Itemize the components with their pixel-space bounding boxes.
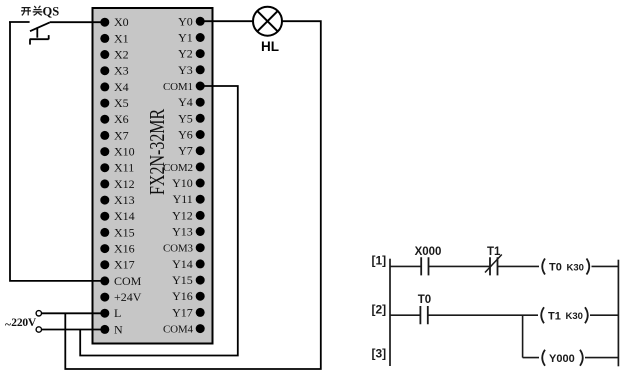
rung 2 wire left (390, 314, 420, 316)
svg-text:Y17: Y17 (172, 305, 193, 319)
pin Y15 (172, 273, 205, 287)
pin Y5 (178, 111, 205, 125)
svg-text:X14: X14 (114, 209, 135, 223)
wire L terminal to L pin (42, 312, 101, 314)
pin X2 (100, 48, 128, 62)
svg-text:N: N (114, 322, 123, 336)
svg-text:Y14: Y14 (172, 257, 193, 271)
rung 1 wire left (390, 265, 421, 267)
rung 1 wire middle (429, 265, 491, 267)
wire Y0 to lamp (204, 20, 253, 22)
pin Y4 (178, 95, 205, 109)
lamp HL (253, 7, 282, 36)
rung 2 wire to coil (428, 314, 538, 316)
svg-text:T1: T1 (487, 246, 501, 258)
pin Y12 (172, 208, 205, 222)
pin N (100, 322, 123, 336)
pin Y16 (172, 289, 205, 303)
svg-text:COM: COM (114, 274, 142, 288)
pin Y17 (172, 305, 205, 319)
svg-text:Y0: Y0 (178, 14, 193, 28)
svg-text:Y6: Y6 (178, 128, 193, 142)
svg-text:X2: X2 (114, 48, 129, 62)
pin X7 (100, 128, 128, 142)
pin COM4 (163, 324, 205, 336)
pin COM3 (163, 243, 205, 255)
pin X17 (100, 258, 134, 272)
pin Y14 (172, 257, 205, 271)
svg-text:X11: X11 (114, 161, 134, 175)
svg-text:T0: T0 (418, 294, 431, 306)
wire lamp to right drop (65, 21, 320, 369)
svg-text:K30: K30 (566, 311, 583, 322)
pin L (100, 306, 121, 320)
terminal N (36, 327, 41, 332)
coil T0 K30 (542, 259, 589, 275)
contact T0 (420, 306, 427, 324)
pin Y13 (172, 225, 205, 239)
pin X3 (100, 64, 128, 78)
svg-text:COM4: COM4 (163, 324, 193, 336)
pin X16 (100, 242, 134, 256)
svg-text:Y000: Y000 (549, 353, 575, 365)
svg-text:X15: X15 (114, 225, 135, 239)
ladder right rail (617, 260, 619, 367)
svg-text:HL: HL (261, 39, 279, 54)
pin COM (100, 274, 141, 288)
rung 3 wire left (523, 357, 539, 359)
svg-text:T1: T1 (548, 311, 561, 323)
pin Y1 (178, 31, 205, 45)
wire left vertical to COM (10, 22, 101, 281)
svg-text:K30: K30 (567, 262, 584, 273)
pin X14 (100, 209, 134, 223)
pin X15 (100, 225, 134, 239)
svg-text:Y11: Y11 (173, 192, 193, 206)
svg-text:Y3: Y3 (178, 63, 193, 77)
switch QS symbol (9, 22, 50, 45)
branch wire rung2 to rung3 (522, 315, 524, 357)
contact T1 normally closed (485, 255, 502, 276)
svg-text:X6: X6 (114, 112, 129, 126)
rung 2 wire to right rail (590, 314, 618, 316)
terminal L (36, 311, 41, 316)
svg-text:[3]: [3] (371, 347, 386, 361)
svg-text:[2]: [2] (371, 302, 386, 316)
svg-text:X3: X3 (114, 64, 129, 78)
svg-text:Y12: Y12 (172, 208, 193, 222)
label T0 K30 (549, 262, 584, 274)
svg-text:~220V: ~220V (5, 317, 37, 331)
pin X5 (100, 96, 128, 110)
wire COM1 loop (80, 86, 238, 356)
svg-text:X5: X5 (114, 96, 129, 110)
coil T1 K30 (541, 307, 588, 323)
pin X4 (100, 80, 128, 94)
svg-text:X0: X0 (114, 15, 129, 29)
pin X1 (100, 31, 128, 45)
switch QS label 开关QS (21, 6, 42, 16)
wire switch to X0 (50, 21, 101, 23)
svg-text:FX2N-32MR: FX2N-32MR (146, 109, 170, 195)
coil Y000 (542, 350, 583, 366)
svg-text:QS: QS (43, 4, 60, 18)
rung 1 wire to right rail (592, 265, 619, 267)
svg-text:X7: X7 (114, 128, 129, 142)
svg-text:[1]: [1] (371, 254, 386, 268)
svg-text:Y7: Y7 (178, 144, 193, 158)
pin X0 (100, 15, 128, 29)
label T1 K30 (548, 311, 583, 323)
pin +24V (100, 290, 141, 304)
svg-text:COM3: COM3 (163, 243, 193, 255)
svg-text:X12: X12 (114, 177, 135, 191)
ladder left rail (389, 259, 391, 366)
pin Y11 (173, 192, 205, 206)
svg-text:Y4: Y4 (178, 95, 193, 109)
svg-text:X16: X16 (114, 242, 135, 256)
svg-text:Y16: Y16 (172, 289, 193, 303)
pin Y7 (178, 144, 205, 158)
svg-text:COM1: COM1 (163, 81, 193, 93)
pin Y10 (172, 176, 205, 190)
pin X12 (100, 177, 134, 191)
svg-text:Y15: Y15 (172, 273, 193, 287)
pin X13 (100, 193, 134, 207)
pin Y0 (178, 14, 205, 28)
pin X11 (100, 161, 134, 175)
rung 1 wire to coil (498, 265, 540, 267)
svg-text:Y13: Y13 (172, 225, 193, 239)
svg-text:Y10: Y10 (172, 176, 193, 190)
svg-text:X000: X000 (415, 246, 442, 258)
svg-text:Y2: Y2 (178, 47, 193, 61)
rung 3 wire to right rail (585, 357, 618, 359)
pin X10 (100, 145, 134, 159)
svg-text:X4: X4 (114, 80, 129, 94)
svg-text:L: L (114, 306, 121, 320)
pin Y6 (178, 128, 205, 142)
contact X000 (421, 257, 428, 275)
pin COM1 (163, 81, 205, 93)
svg-text:X13: X13 (114, 193, 135, 207)
svg-text:+24V: +24V (114, 290, 142, 304)
pin COM2 (163, 162, 205, 174)
wire N terminal to N pin (42, 329, 101, 331)
pin X6 (100, 112, 128, 126)
svg-text:Y1: Y1 (178, 31, 193, 45)
svg-text:X10: X10 (114, 145, 135, 159)
svg-text:X1: X1 (114, 31, 129, 45)
svg-text:Y5: Y5 (178, 111, 193, 125)
pin Y3 (178, 63, 205, 77)
svg-text:X17: X17 (114, 258, 135, 272)
pin Y2 (178, 47, 205, 61)
svg-text:T0: T0 (549, 262, 562, 274)
PLC block U1 FX2N-32MR body (93, 8, 213, 344)
svg-text:COM2: COM2 (163, 162, 193, 174)
